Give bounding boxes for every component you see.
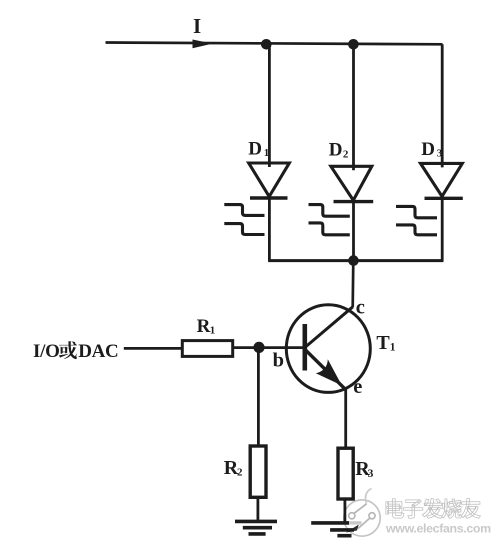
wire cathode D3 [441, 194, 444, 260]
watermark logo dark jaw [346, 525, 359, 533]
D3 arrow upper [396, 206, 437, 217]
svg-text:D: D [248, 139, 262, 160]
resistor R2 body [250, 446, 266, 497]
wire R2 to ground [256, 497, 259, 520]
ground R3 faded segment under watermark [349, 521, 362, 524]
svg-text:c: c [356, 297, 365, 319]
svg-text:I/O: I/O [33, 341, 60, 362]
transistor T1 emitter arrowhead [316, 359, 342, 385]
wire top bus [106, 43, 443, 45]
node junction dot top D2 [348, 39, 359, 50]
node junction dot bottom bus [348, 255, 359, 266]
svg-text:T: T [376, 332, 390, 354]
watermark logo flame tail [366, 489, 372, 504]
D2 arrow lower [309, 223, 350, 235]
ground R3 [311, 523, 354, 536]
svg-text:D: D [421, 139, 435, 160]
wire R3 to ground [343, 499, 346, 522]
svg-text:1: 1 [390, 341, 396, 353]
wire cathode D2 [352, 198, 355, 261]
wire base [233, 346, 304, 349]
svg-text:3: 3 [437, 148, 443, 160]
svg-text:3: 3 [368, 468, 374, 480]
D2 arrow upper [309, 205, 350, 217]
diode D3 cathode bar [425, 197, 463, 200]
D1 arrow lower [224, 224, 264, 235]
watermark logo pivot circle right [369, 513, 375, 519]
transistor T1 emitter stroke [306, 351, 346, 390]
svg-text:R: R [197, 316, 211, 337]
node junction dot base [253, 342, 264, 353]
svg-text:2: 2 [237, 466, 243, 478]
D3 arrow lower [396, 225, 437, 235]
svg-text:DAC: DAC [78, 341, 118, 362]
transistor T1 circle [286, 305, 370, 393]
wire anode D2 [352, 44, 355, 170]
resistor R3 body [338, 448, 353, 499]
wire cathode D1 [268, 194, 271, 261]
svg-text:D: D [329, 140, 343, 161]
svg-text:e: e [353, 376, 362, 398]
diode D3 triangle [421, 163, 463, 196]
D1 arrow upper [224, 205, 264, 216]
watermark text dianzifashaoyou [386, 499, 404, 518]
svg-text:2: 2 [343, 149, 349, 161]
diode D2 cathode bar [334, 200, 374, 203]
wire bottom bus [268, 259, 443, 262]
current arrow I [193, 40, 213, 49]
svg-text:I: I [193, 14, 201, 38]
watermark logo circle [344, 500, 380, 536]
watermark logo wrench stroke lower [358, 518, 371, 529]
svg-text:1: 1 [210, 324, 216, 336]
transistor T1 base bar [302, 324, 307, 371]
transistor T1 collector stroke [306, 307, 353, 347]
wire collector [351, 261, 354, 308]
wire emitter to R3 [344, 389, 347, 449]
wire anode D1 [268, 44, 271, 167]
svg-text:www.elecfans.com: www.elecfans.com [385, 522, 491, 536]
diode D2 triangle [331, 166, 372, 200]
ground R2 [235, 521, 277, 534]
svg-text:b: b [273, 350, 284, 372]
diode D1 triangle [249, 163, 290, 197]
watermark logo pivot circle left [349, 513, 355, 519]
node junction dot top D1 [261, 39, 272, 50]
resistor R1 body [182, 341, 232, 357]
diode D1 cathode bar [250, 196, 288, 199]
wire anode D3 [441, 44, 444, 167]
svg-text:1: 1 [264, 147, 270, 159]
watermark logo wrench stroke upper [354, 504, 367, 514]
wire input to R1 [124, 347, 183, 350]
wire base node to R2 [257, 347, 260, 446]
